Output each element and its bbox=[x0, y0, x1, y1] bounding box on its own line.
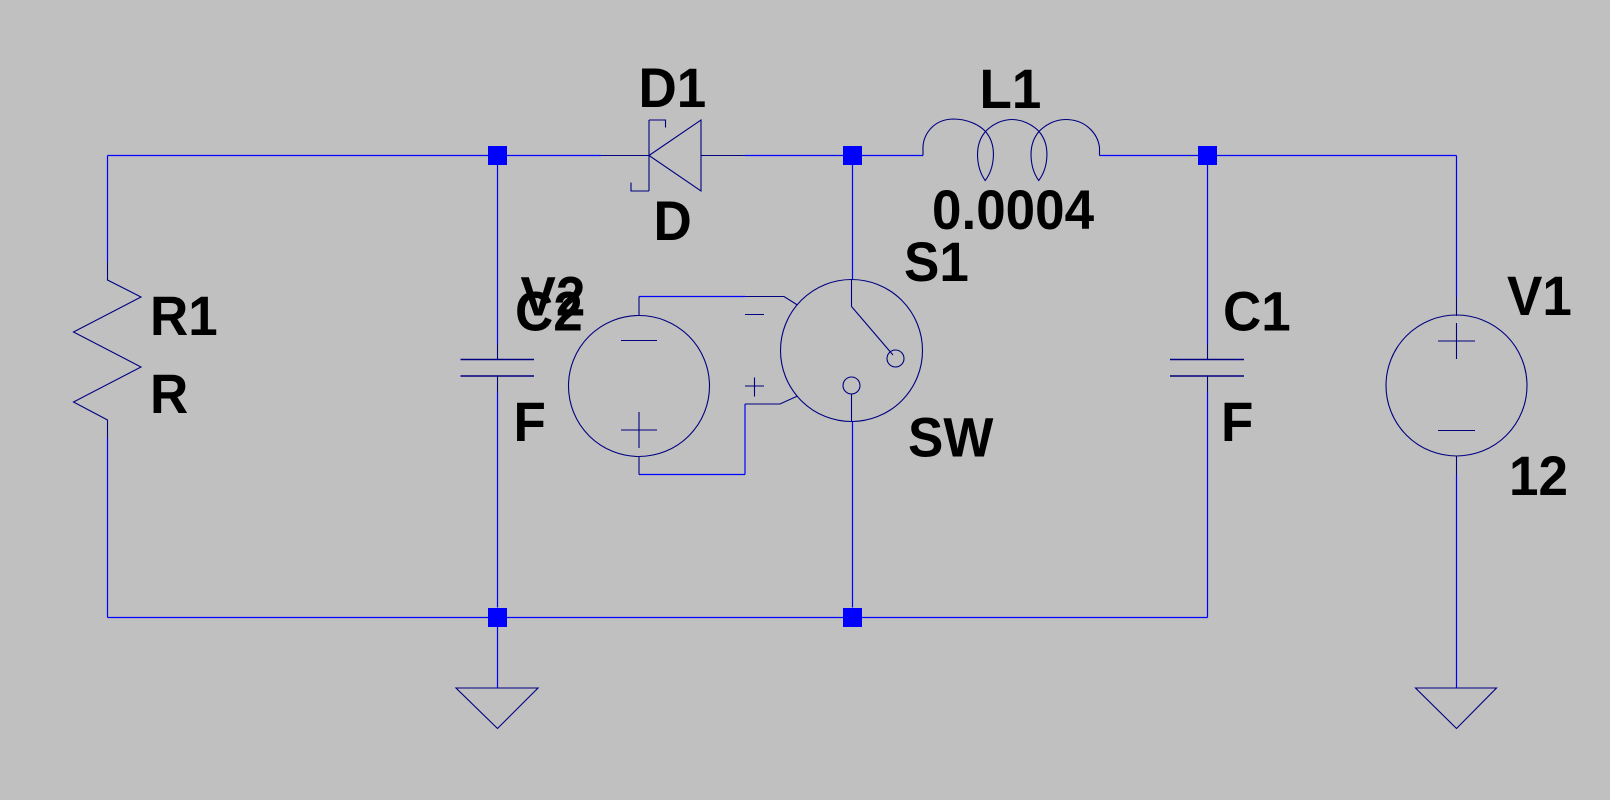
svg-text:D: D bbox=[654, 190, 692, 252]
svg-text:L1: L1 bbox=[980, 58, 1042, 120]
svg-text:D1: D1 bbox=[639, 57, 707, 119]
svg-text:C2: C2 bbox=[515, 280, 583, 342]
svg-text:R: R bbox=[150, 363, 188, 425]
svg-text:F: F bbox=[514, 391, 546, 453]
svg-text:S1: S1 bbox=[904, 231, 969, 293]
svg-text:V1: V1 bbox=[1507, 265, 1572, 327]
svg-text:SW: SW bbox=[908, 406, 994, 468]
svg-text:F: F bbox=[1221, 391, 1253, 453]
svg-text:R1: R1 bbox=[150, 285, 218, 347]
svg-text:12: 12 bbox=[1509, 445, 1568, 507]
svg-text:C1: C1 bbox=[1223, 280, 1291, 342]
